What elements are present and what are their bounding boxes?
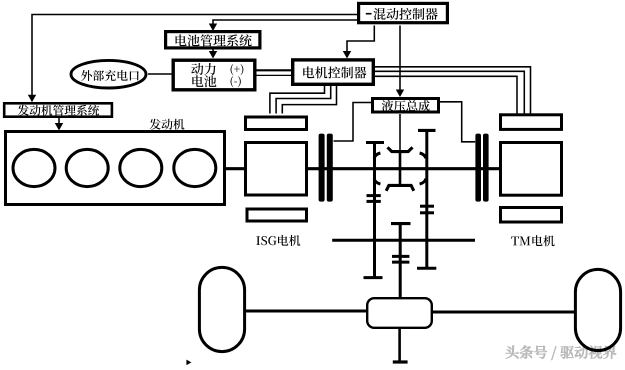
gear shaft right: bottom end bar — [417, 267, 436, 270]
right wheel (outline) — [575, 269, 620, 350]
wire: left axle — [245, 310, 367, 313]
box U4 hydraulic unit 液压总成 — [373, 99, 439, 113]
output gear synchro bar 2 — [392, 261, 409, 264]
wire: HCU to motor-controller (bend) — [347, 26, 374, 52]
TM motor rotor box — [501, 143, 562, 196]
arrowhead into motor controller — [343, 51, 351, 59]
engine cylinder 2 — [66, 149, 108, 186]
box U2 battery management system 电池管理系统 — [166, 32, 260, 48]
label 动力 — [191, 63, 215, 75]
wire: main shaft engine-ISG-gearbox-TM — [226, 167, 499, 170]
gear shaft right: synchro bar 2 — [420, 211, 434, 214]
wire: hydraulic unit to planetary input — [399, 114, 401, 150]
differential output end bar — [393, 360, 408, 363]
output gear stem — [399, 224, 402, 298]
watermark 头条号/驱动视界 — [506, 345, 617, 360]
gear shaft right: top bar — [418, 129, 436, 132]
wire: hydraulic unit to right clutch — [440, 102, 475, 142]
wire: BMS vertical to HCU — [213, 20, 359, 25]
planetary lower cup — [386, 185, 414, 190]
gear shaft left: stem — [373, 141, 376, 276]
engine cylinder 1 — [13, 149, 55, 186]
box U1 hybrid controller 混动控制器 — [359, 3, 448, 22]
mesh mark lower right — [420, 179, 426, 184]
engine cylinder 3 — [120, 149, 162, 186]
mesh mark upper right — [420, 153, 426, 158]
gear shaft left: top bar — [366, 141, 384, 144]
box B1 power battery 动力电池 — [173, 60, 255, 90]
wire: charge port to battery — [148, 73, 172, 75]
wire: BMS down to battery — [212, 49, 214, 52]
wire: right axle — [432, 311, 575, 314]
planetary upper cup — [388, 147, 413, 151]
mesh mark upper left — [374, 153, 380, 158]
clutch K1 right plate 1 — [475, 134, 481, 202]
clutch K0 left plate 2 — [327, 134, 333, 202]
arrowhead into battery — [209, 51, 217, 59]
gear shaft left: synchro bar 1 — [367, 194, 381, 197]
small cursor arrow bottom left — [186, 360, 191, 366]
label ISG电机 — [256, 235, 300, 246]
wire: engine-ECU down to engine — [58, 118, 60, 124]
wire: hydraulic unit to left clutch — [334, 103, 372, 142]
wire: battery to motor controller DC bus thin — [254, 74, 293, 76]
label engine 发动机 — [150, 119, 185, 130]
wire stub into hybrid controller — [366, 13, 372, 15]
mesh mark lower left — [374, 179, 380, 184]
wire: counter shaft — [332, 239, 475, 242]
gear shaft left: bottom end bar — [364, 276, 383, 279]
wire: motor controller to ISG motor phase line 1 — [270, 86, 325, 114]
left wheel — [199, 267, 244, 351]
wire: battery to motor controller DC bus thick — [254, 69, 293, 71]
wire: motor controller to TM motor phase line 2 — [374, 71, 524, 114]
label 电池 — [192, 75, 216, 87]
arrowhead into engine-ECU — [28, 95, 36, 103]
gear shaft left: synchro bar 2 — [367, 200, 381, 203]
clutch K0 left plate 1 — [319, 134, 325, 202]
wire: motor controller to ISG motor phase line 3 — [282, 86, 336, 114]
planetary lower stem — [399, 167, 402, 185]
wire: motor controller to ISG motor phase line 2 — [276, 86, 331, 114]
wire: HCU to engine-ECU (top-left long feedback line) — [32, 15, 359, 97]
TM motor stator top box — [501, 115, 562, 130]
box U3 motor controller 电机控制器 — [293, 60, 374, 84]
arrowhead into engine — [55, 123, 63, 131]
ISG motor rotor box — [246, 143, 307, 196]
label (+) — [230, 64, 243, 75]
ellipse external charge port 外部充电口 — [71, 60, 146, 88]
engine cylinder 4 — [174, 149, 216, 186]
arrowhead into BMS — [209, 24, 217, 32]
gear shaft right: stem — [425, 129, 428, 267]
TM motor stator bottom box — [501, 208, 562, 223]
right wheel (fill) — [575, 269, 620, 350]
wire: motor controller to TM motor phase line 3 — [374, 76, 517, 114]
wire: motor controller to TM motor phase line 1 — [374, 67, 531, 114]
output gear synchro bar 1 — [392, 255, 409, 258]
box engine block 发动机 — [6, 132, 225, 205]
label TM电机 — [511, 235, 554, 246]
ISG motor stator bottom box — [247, 209, 307, 221]
differential box — [367, 298, 432, 328]
clutch K1 right plate 2 — [483, 134, 489, 202]
planetary upper stem — [399, 152, 402, 170]
ISG motor stator top box — [246, 117, 307, 130]
differential output stem — [398, 328, 401, 361]
arrowhead into hydraulic unit — [396, 90, 404, 98]
label (-) — [230, 76, 240, 87]
output gear top bar — [391, 222, 411, 225]
box U5 engine management system 发动机管理系统 — [4, 103, 112, 116]
gear shaft right: synchro bar 1 — [420, 205, 434, 208]
wire: HCU down to hydraulic unit — [399, 26, 401, 91]
